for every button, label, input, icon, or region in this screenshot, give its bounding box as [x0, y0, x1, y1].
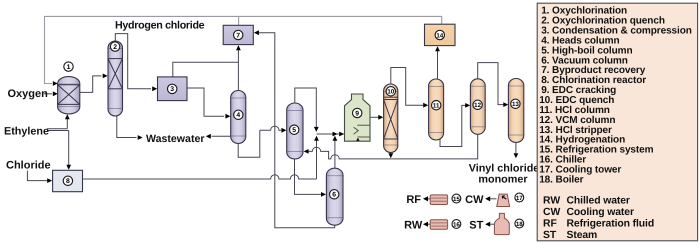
svg-text:Refrigeration fluid: Refrigeration fluid [567, 218, 655, 229]
svg-text:13: 13 [512, 101, 519, 108]
svg-text:12: 12 [474, 102, 481, 109]
svg-text:Chloride: Chloride [6, 160, 51, 172]
svg-text:18. Boiler: 18. Boiler [539, 174, 583, 185]
svg-text:17: 17 [516, 195, 523, 202]
svg-text:16: 16 [453, 221, 460, 228]
svg-text:Steam: Steam [567, 230, 598, 241]
svg-text:RF: RF [543, 218, 557, 229]
svg-text:18: 18 [516, 221, 523, 228]
svg-text:3: 3 [170, 86, 174, 93]
svg-text:Wastewater: Wastewater [146, 133, 204, 145]
svg-text:RW: RW [404, 219, 423, 231]
svg-text:RW: RW [543, 195, 560, 206]
svg-text:14: 14 [436, 32, 443, 39]
svg-text:CW: CW [465, 194, 484, 206]
svg-text:4: 4 [236, 112, 240, 119]
svg-text:ST: ST [543, 230, 557, 241]
svg-text:2: 2 [113, 44, 117, 51]
svg-text:Hydrogen chloride: Hydrogen chloride [115, 19, 205, 31]
svg-text:Chilled water: Chilled water [567, 195, 630, 206]
svg-text:10: 10 [387, 89, 394, 96]
svg-text:RF: RF [406, 194, 421, 206]
svg-text:6: 6 [332, 192, 336, 199]
svg-text:11: 11 [433, 103, 440, 110]
svg-text:7: 7 [236, 32, 240, 39]
svg-text:Oxygen: Oxygen [8, 88, 49, 100]
svg-text:1: 1 [67, 64, 71, 71]
svg-text:15: 15 [453, 196, 460, 203]
svg-text:8: 8 [66, 178, 70, 185]
svg-text:ST: ST [469, 219, 483, 231]
svg-text:Ethylene: Ethylene [4, 125, 49, 137]
svg-text:Cooling water: Cooling water [567, 207, 634, 218]
svg-text:monomer: monomer [478, 173, 528, 185]
svg-text:9: 9 [355, 110, 359, 117]
svg-text:CW: CW [543, 207, 561, 218]
svg-text:5: 5 [292, 127, 296, 134]
